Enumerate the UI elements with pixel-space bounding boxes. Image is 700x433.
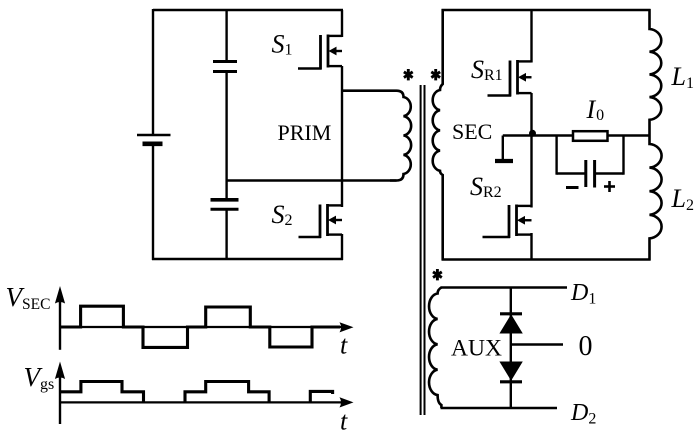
wire: capacitor midpoint to primary bottom [227, 179, 397, 181]
label minus [566, 186, 579, 189]
wire: top rail to C1 [225, 10, 227, 61]
svg-text:PRIM: PRIM [278, 120, 332, 145]
wire: diode string vertical [510, 288, 512, 409]
wire: S2 source to bottom rail [341, 234, 343, 260]
capacitor C3 left plate [584, 160, 587, 187]
wire: mid wire junction to right rail [532, 134, 651, 136]
plot2 x-axis [60, 401, 341, 403]
plot1 x-axis [60, 326, 341, 328]
wire: right top rail [442, 9, 651, 11]
polarity dot (asterisk) secondary [431, 69, 440, 80]
wire: ground branch horizontal [503, 134, 532, 136]
wire: C2 to bottom rail [225, 210, 227, 260]
wire: left vertical to battery + [152, 9, 154, 134]
inductor L1 + right rail top [650, 9, 662, 136]
battery B1 negative plate [143, 142, 163, 147]
svg-text:0: 0 [579, 331, 593, 362]
transformer aux winding [429, 288, 441, 409]
wire: cap branch bottom left [557, 172, 585, 174]
svg-text:AUX: AUX [451, 336, 502, 362]
waveform V_gs pulse 3 [310, 391, 332, 402]
wire: S1 source to S2 drain [341, 66, 343, 207]
wire: SR1 drain from top rail [530, 10, 532, 63]
transformer core line 2 [424, 85, 426, 415]
svg-text:D2: D2 [570, 400, 596, 428]
wire: aux bottom to D2 [441, 407, 558, 409]
diode D2 cathode bar [500, 380, 522, 383]
inductor L2 + right rail bottom [650, 136, 662, 261]
transistor Q-SR1 [488, 60, 532, 97]
capacitor C1 bottom plate [213, 70, 237, 73]
transistor Q-SR2 [483, 205, 532, 239]
capacitor C2 top plate [211, 198, 239, 202]
wire: SR2 source to bottom rail [530, 233, 532, 261]
capacitor C3 right plate [593, 160, 596, 188]
svg-text:VSEC: VSEC [6, 282, 51, 313]
wire: SR1 source to SR2 drain [530, 93, 532, 208]
svg-text:SR1: SR1 [471, 55, 503, 84]
wire: cap branch right vertical [622, 136, 624, 175]
polarity dot (asterisk) primary [404, 69, 413, 80]
svg-text:L2: L2 [671, 184, 694, 214]
plot2 y-axis arrowhead [55, 362, 65, 380]
wire: battery - to bottom rail [152, 144, 154, 260]
transistor Q-S1 [298, 35, 342, 70]
transistor Q-S2 [299, 204, 343, 238]
waveform V_gs pulse 2 [185, 382, 269, 403]
wire: aux top to D1 [441, 286, 568, 288]
svg-text:D1: D1 [570, 280, 596, 308]
wire: C1 to C2 vertical [225, 72, 227, 199]
current source I0 box [573, 131, 608, 141]
svg-text:t: t [340, 331, 348, 360]
plot1 y-axis arrowhead [55, 286, 65, 304]
svg-text:S2: S2 [272, 200, 293, 229]
diode D1 triangle [500, 315, 522, 333]
wire: right bottom rail [442, 258, 651, 260]
capacitor C1 top plate [213, 60, 237, 63]
transformer secondary winding SEC + left rail of output [433, 9, 443, 260]
plot2 x-axis arrowhead [340, 397, 354, 407]
svg-text:S1: S1 [272, 30, 293, 59]
waveform V_gs pulse 1 [60, 382, 144, 403]
diode D2 triangle [500, 362, 522, 380]
svg-text:Vgs: Vgs [24, 362, 55, 393]
transformer primary winding PRIM [343, 91, 411, 181]
plot1 y-axis [59, 302, 61, 350]
diode D1 cathode bar [500, 312, 522, 315]
battery B1 positive plate [137, 134, 171, 136]
transformer core line 1 [420, 85, 422, 415]
wire: left top rail [153, 9, 343, 11]
capacitor C2 bottom plate [211, 208, 239, 211]
ground symbol bar [495, 159, 513, 163]
waveform V_SEC [60, 306, 340, 347]
wire: zero tap [511, 343, 563, 345]
wire: left bottom rail [152, 258, 343, 260]
wire: cap branch left vertical [555, 136, 557, 175]
svg-text:I0: I0 [586, 95, 605, 124]
plot2 y-axis [59, 376, 61, 424]
polarity dot (asterisk) aux [433, 269, 442, 280]
plot1 x-axis arrowhead [340, 322, 354, 332]
svg-text:t: t [340, 407, 348, 433]
label plus [604, 181, 615, 192]
node: junction dot [529, 130, 536, 137]
wire: cap branch bottom right [595, 172, 624, 174]
wire: ground branch vertical [502, 136, 504, 160]
wire: S1 drain from top rail [341, 10, 343, 37]
svg-text:L1: L1 [671, 62, 694, 92]
svg-text:SEC: SEC [452, 119, 492, 144]
svg-text:SR2: SR2 [470, 172, 502, 201]
